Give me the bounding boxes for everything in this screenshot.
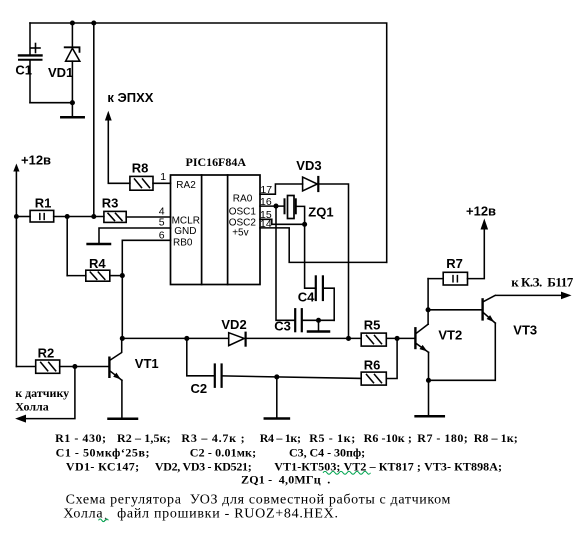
diode VD3 — [303, 177, 319, 191]
svg-text:R6 -10к ;: R6 -10к ; — [364, 431, 412, 445]
capacitor C2 with leads — [187, 338, 361, 386]
svg-text:R5 - 1к;: R5 - 1к; — [309, 431, 355, 445]
wire GND pin5 — [99, 228, 171, 243]
svg-text:RA0: RA0 — [233, 194, 253, 205]
node VD1/C1 bottom junction — [70, 100, 75, 105]
+12v supply arrow (left) — [13, 164, 19, 367]
wire R7 right to +12 arrow — [468, 227, 485, 279]
svg-text:VТ1-КТ503; VТ2 – КТ817 ; VТ3-: VТ1-КТ503; VТ2 – КТ817 ; VТ3- КТ898А; — [274, 460, 502, 474]
diode VD2 — [229, 333, 246, 346]
wire to Hall sensor arrow — [23, 367, 75, 419]
resistor R5 — [361, 333, 386, 346]
svg-text:С2 - 0.01мк;: С2 - 0.01мк; — [190, 446, 256, 460]
wire C4 right down to C3 row — [323, 288, 334, 320]
resistor R3 — [104, 211, 126, 222]
svg-text:VT2: VT2 — [438, 327, 462, 342]
ground (VT2/VT3 emitters) — [416, 415, 444, 418]
svg-text:R3 – 4.7к ;: R3 – 4.7к ; — [181, 431, 244, 445]
node emitters join — [426, 378, 431, 383]
wire R7 left to VT2 collector — [428, 278, 443, 280]
svg-text:R1: R1 — [35, 195, 52, 210]
svg-text:R4 – 1к;: R4 – 1к; — [260, 431, 301, 445]
node Hall arrow tap — [72, 364, 77, 369]
svg-text:GND: GND — [174, 226, 196, 237]
svg-text:R1 - 430;: R1 - 430; — [55, 431, 106, 445]
resistor R6 — [361, 372, 386, 385]
spellcheck wavy underline VT2 — [323, 471, 371, 474]
wire C3 right row — [302, 319, 334, 321]
wire R8 to pin 1 — [153, 182, 171, 184]
node 5v rail tap — [91, 214, 96, 219]
svg-text:R2: R2 — [38, 345, 55, 360]
svg-text:R8 – 1к;: R8 – 1к; — [474, 431, 518, 445]
svg-text:С1 - 50мкф‘25в;: С1 - 50мкф‘25в; — [56, 446, 150, 460]
resistor R8 — [130, 176, 153, 190]
svg-text:+12в: +12в — [466, 204, 496, 219]
svg-text:PIC16F84A: PIC16F84A — [186, 155, 247, 169]
wire down to ground — [276, 377, 278, 417]
svg-text:+12в: +12в — [21, 153, 51, 168]
svg-text:ZQ1: ZQ1 — [308, 204, 333, 219]
wire R3 to MCLR pin 4 — [126, 216, 170, 218]
wire R6 right riser to VT2 base node — [386, 338, 397, 378]
svg-text:C1: C1 — [15, 63, 32, 78]
svg-text:R6: R6 — [364, 357, 381, 372]
transistor VT3 — [483, 295, 496, 323]
svg-text:R5: R5 — [364, 317, 381, 332]
svg-text:VT3: VT3 — [513, 323, 537, 338]
wire pin15 to crystal right — [260, 219, 305, 224]
svg-text:VD2: VD2 — [221, 317, 246, 332]
ground (C3/C4) — [308, 330, 329, 333]
node VD1 top rail junction — [70, 20, 75, 25]
wire R2 to VT1 base — [60, 366, 109, 368]
wire R4 right to RB0 riser — [110, 275, 123, 277]
svg-text:R7 - 180;: R7 - 180; — [417, 431, 468, 445]
wire R1 to R3 — [54, 216, 104, 218]
svg-text:C3: C3 — [274, 318, 291, 333]
svg-text:RA2: RA2 — [176, 180, 196, 191]
ground (C1/VD1) — [61, 116, 83, 119]
svg-text:к датчику: к датчику — [15, 386, 69, 400]
wire R4 left riser — [66, 217, 68, 276]
node R4 tap — [65, 214, 70, 219]
wire VT3 base — [428, 309, 481, 311]
wire collector output arrow — [496, 294, 564, 296]
ground (pin 5) — [88, 243, 110, 246]
node C3/C4 ground tap — [316, 318, 321, 323]
wire pin16 to crystal — [260, 205, 285, 207]
svg-text:VD1: VD1 — [48, 65, 73, 80]
svg-text:+5v: +5v — [232, 228, 248, 239]
node C2 tap — [184, 336, 189, 341]
wire pin17 to VD3 — [260, 184, 303, 194]
wire VD3 cathode down to VT1 row — [318, 184, 348, 338]
svg-text:R7: R7 — [446, 256, 463, 271]
svg-text:VD1- КС147;: VD1- КС147; — [66, 460, 139, 474]
wire OSC1 down to C3 — [276, 206, 295, 320]
svg-text:Схема регулятора УОЗ для совм: Схема регулятора УОЗ для совместной рабо… — [66, 492, 451, 507]
capacitor C4 — [316, 276, 323, 300]
op-amp U1 PIC16F84A outline — [171, 175, 261, 285]
node OSC2 join — [302, 222, 307, 227]
svg-text:R8: R8 — [132, 160, 149, 175]
wire down to ground — [318, 320, 320, 330]
zener diode VD1 — [65, 23, 80, 116]
ground (VT1 emitter) — [109, 418, 138, 421]
svg-text:к К.З. Б117: к К.З. Б117 — [511, 274, 574, 289]
wire pin14 +5v to rail — [260, 228, 387, 263]
svg-text:R4: R4 — [89, 256, 106, 271]
transistor VT1 — [109, 338, 122, 417]
wire top +5v rail — [30, 23, 387, 262]
wire main row VT1 collector to VT2 base — [122, 337, 228, 339]
wire rail down to R1/R3 node — [93, 23, 95, 217]
svg-text:C2: C2 — [191, 381, 208, 396]
svg-text:Холла¸ файл прошивки - RUOZ+8: Холла¸ файл прошивки - RUOZ+84.HEX. — [63, 507, 338, 522]
arrow to EPHH — [105, 111, 112, 121]
wire VT3 emitter down and to VT2 emitter — [429, 323, 496, 380]
resistor R7 — [443, 272, 467, 285]
svg-text:1: 1 — [160, 171, 166, 183]
resistor R2 — [36, 360, 60, 373]
svg-text:R2 – 1,5к;: R2 – 1,5к; — [117, 431, 171, 445]
svg-text:VD3: VD3 — [296, 158, 321, 173]
node VD3 join — [346, 336, 351, 341]
resistor R1 — [30, 210, 54, 222]
svg-text:C4: C4 — [298, 290, 315, 305]
svg-text:Холла: Холла — [15, 399, 49, 413]
node OSC1/C3 — [273, 204, 278, 209]
wire +12 line down to R2 — [16, 366, 35, 368]
node C2/R6 ground tap — [274, 374, 279, 379]
capacitor C1 — [19, 23, 42, 103]
svg-text:MCLR: MCLR — [172, 216, 200, 227]
crystal ZQ1 — [285, 196, 296, 219]
capacitor C3 — [295, 309, 302, 331]
wire VT2 emitter down — [428, 352, 430, 415]
node VT3 base tap — [426, 307, 431, 312]
node R1 left on +12 line — [14, 214, 19, 219]
node R4/RB0 junction — [120, 273, 125, 278]
wire C1 bottom to VD1 — [30, 102, 72, 104]
spellcheck wavy underline comma — [99, 519, 109, 522]
svg-text:ZQ1 - 4,0МГц .: ZQ1 - 4,0МГц . — [241, 473, 330, 487]
wire crystal right down to C4 — [296, 206, 316, 288]
wire RB0 pin6 down — [122, 240, 170, 338]
ground (C2/R6) — [265, 417, 289, 420]
svg-text:OSC1: OSC1 — [229, 207, 257, 218]
svg-text:VD2, VD3 - КD521;: VD2, VD3 - КD521; — [155, 460, 252, 474]
wire VT2 collector up to R7 — [427, 279, 429, 325]
wire R1 row — [16, 216, 30, 218]
svg-text:к ЭПХХ: к ЭПХХ — [107, 90, 153, 105]
svg-text:R3: R3 — [102, 195, 119, 210]
svg-text:С3, С4 - 30пф;: С3, С4 - 30пф; — [289, 446, 365, 460]
transistor VT2 — [415, 324, 428, 352]
svg-text:RB0: RB0 — [173, 237, 193, 248]
svg-text:4: 4 — [159, 205, 165, 217]
node R6 riser join — [395, 336, 400, 341]
node VT1 collector — [120, 336, 125, 341]
svg-text:VT1: VT1 — [135, 356, 159, 371]
resistor R4 — [86, 270, 110, 281]
node rail to R3 branch — [91, 20, 96, 25]
wire R8 left to EPHH arrow — [108, 119, 130, 183]
svg-text:5: 5 — [159, 217, 165, 229]
